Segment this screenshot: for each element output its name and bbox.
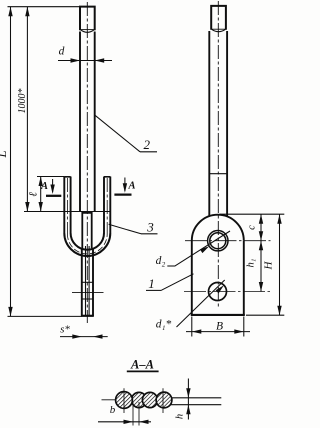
leader for item 3 xyxy=(109,224,141,234)
dimension L line xyxy=(10,7,12,317)
section arrow A left xyxy=(52,179,54,192)
upper hole centreline xyxy=(185,240,271,242)
dimension 1000* line xyxy=(26,7,28,212)
section circle C4 (stirrup leg cut) xyxy=(156,392,172,408)
rod body left edge xyxy=(79,32,81,212)
hidden hole edge lower tick xyxy=(82,298,93,300)
section strip bottom edge xyxy=(171,404,222,406)
svg-text:s*: s* xyxy=(60,324,70,336)
dimension H arrows xyxy=(277,214,281,224)
dimension b arrows xyxy=(124,420,134,424)
dimension h arrows xyxy=(186,388,190,398)
svg-text:A: A xyxy=(40,181,48,192)
section vertical centreline C4 xyxy=(162,388,164,413)
section circle C2 xyxy=(131,392,146,407)
eye plate bottom edge xyxy=(191,314,245,316)
plate inner edges (front view) xyxy=(85,246,87,316)
leader for d1 xyxy=(177,280,225,327)
eye plate dome (item 1) xyxy=(192,215,244,241)
dimension l arrows xyxy=(39,177,43,187)
svg-text:d: d xyxy=(59,46,65,58)
dimension d arrows xyxy=(71,58,81,62)
svg-text:d₁*: d₁* xyxy=(156,319,172,331)
b extension lines xyxy=(132,402,134,426)
plate outer edges (front view) xyxy=(81,249,83,316)
B extension lines xyxy=(191,317,193,337)
svg-text:ℓ: ℓ xyxy=(28,192,40,197)
leader for item 1 xyxy=(146,289,162,291)
plate bottom extension line right xyxy=(246,314,284,316)
stirrup left leg xyxy=(64,177,70,234)
svg-text:c: c xyxy=(247,225,258,230)
section circle C3 xyxy=(142,392,157,407)
dimension L arrows xyxy=(8,7,12,17)
section vertical centreline C1 xyxy=(123,388,125,413)
rod flattened end block xyxy=(82,213,91,248)
section strip top edge xyxy=(171,397,222,399)
svg-text:d₂: d₂ xyxy=(156,255,166,267)
lower hole centreline xyxy=(184,291,271,293)
dimension h1 line xyxy=(260,241,262,292)
dimension B line xyxy=(186,331,250,333)
dimension s* arrows xyxy=(72,334,82,338)
svg-text:H: H xyxy=(263,260,275,270)
eye plate sides xyxy=(191,241,193,316)
svg-text:h₁: h₁ xyxy=(246,259,257,268)
centre line of rod (right view) xyxy=(217,1,219,309)
stirrup leg centrelines xyxy=(66,178,68,234)
stirrup inner bend xyxy=(71,233,104,250)
dimension d extension/line xyxy=(58,60,112,62)
upper hole d2 (chamfer circles) xyxy=(208,231,228,251)
lower hole d1 xyxy=(209,283,227,301)
rod threaded top end (right view) xyxy=(211,6,226,30)
dimension c line xyxy=(260,214,262,241)
stirrup outer bend xyxy=(64,233,110,256)
section centreline horizontal xyxy=(102,399,172,401)
dimension l line xyxy=(40,177,42,212)
svg-text:A: A xyxy=(127,181,135,192)
svg-text:2: 2 xyxy=(144,137,151,152)
stirrup bend centreline arc xyxy=(67,234,107,254)
dimension H line xyxy=(279,214,281,315)
dimension h line xyxy=(187,379,189,420)
leader for d2 xyxy=(175,231,230,266)
leader for item 2 xyxy=(95,115,140,152)
extension line top (y=6.7) xyxy=(8,6,80,8)
svg-text:3: 3 xyxy=(146,220,154,235)
svg-text:1: 1 xyxy=(148,276,155,291)
extension line bottom (y=316.4) xyxy=(8,315,82,317)
extension line at stirrup pin level (y=211.5) xyxy=(24,211,111,213)
dimension B arrows xyxy=(192,329,202,333)
forging transition tick xyxy=(209,173,227,175)
svg-text:B: B xyxy=(216,321,223,333)
svg-text:h: h xyxy=(175,414,186,419)
dimension h1 arrows xyxy=(259,241,263,251)
bottom hole centreline (front view) xyxy=(72,292,104,294)
stirrup right leg xyxy=(104,177,110,234)
svg-text:L: L xyxy=(0,150,9,158)
plate bottom edge (front view) xyxy=(81,315,94,317)
rod body right edge xyxy=(94,32,96,212)
dome top extension line xyxy=(220,213,285,215)
dimension b line xyxy=(98,421,151,423)
svg-text:A–A: A–A xyxy=(130,358,154,372)
extension line stirrup top (y=176.5) xyxy=(37,176,64,178)
svg-text:b: b xyxy=(110,404,116,416)
section circle C1 (stirrup leg cut) xyxy=(116,392,133,409)
hidden hole edge upper tick xyxy=(82,281,93,283)
dimension s* line xyxy=(60,336,108,338)
rod threaded top end (left view) xyxy=(80,7,95,31)
dimension c arrows xyxy=(259,214,263,224)
centre line of rod (left view) xyxy=(86,2,88,323)
section arrow A right xyxy=(124,178,126,192)
rod body edges (right view) xyxy=(208,31,210,217)
svg-text:1000*: 1000* xyxy=(17,89,28,114)
dimension 1000* arrows xyxy=(25,7,29,17)
